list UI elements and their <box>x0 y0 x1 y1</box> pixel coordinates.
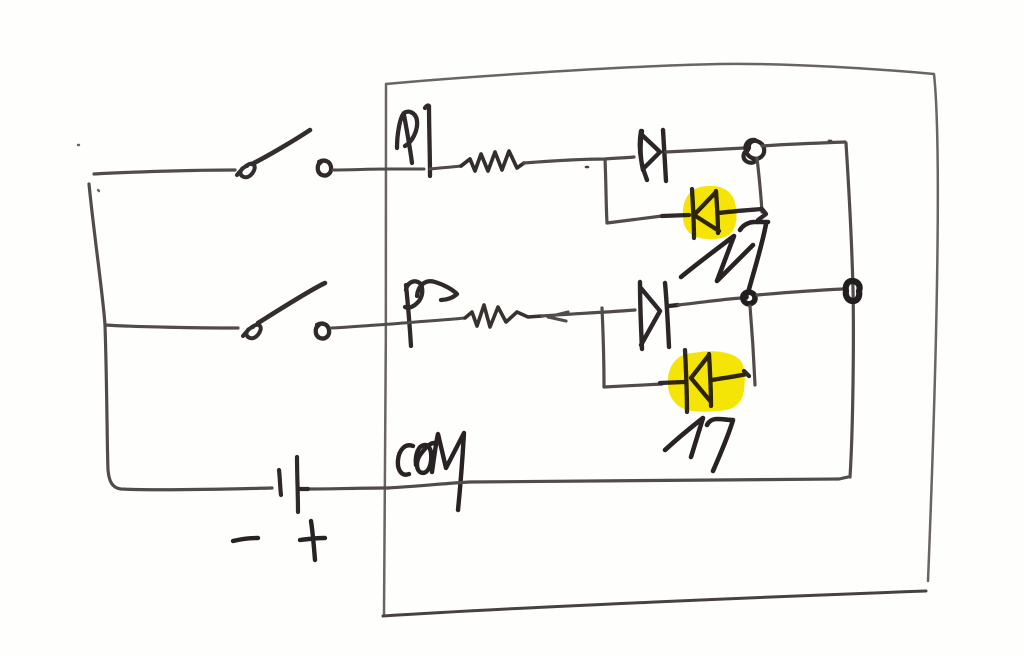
stray ink dot below row1 start <box>98 190 99 191</box>
LED1 highlighter blob <box>683 186 737 239</box>
stray ink dot near wire <box>586 166 588 169</box>
wire: battery plus to COM terminal and COM line to right rail <box>308 477 848 489</box>
wire: left rail to switch S1 <box>94 170 235 174</box>
wire: branch from R2 output down to LED2 anode <box>602 308 662 387</box>
battery BT1 positive plate <box>297 457 308 512</box>
wire: node B down to LED2 cathode side <box>750 306 755 385</box>
wire: P2 terminal to resistor R2 <box>392 318 465 324</box>
wire: D2 cathode to node B <box>678 298 741 305</box>
battery BT1 negative plate <box>279 470 281 495</box>
wire: P1 terminal to resistor R1 <box>430 166 461 169</box>
label P1 <box>397 106 430 176</box>
switch S2 lever <box>258 283 325 323</box>
LED1 emission arrows <box>681 222 768 293</box>
node A (open junction ring) <box>744 140 765 163</box>
node B (junction dot) <box>743 292 755 304</box>
wire: R1 to diode D1 (junction with LED1 branch) <box>524 157 634 163</box>
right rail wire (vertical, to COM) <box>846 143 853 477</box>
LED2 emission arrows <box>665 418 733 471</box>
label COM <box>398 433 464 510</box>
node C (junction dot on right rail) <box>846 281 860 301</box>
switch S1 pivot <box>237 164 255 178</box>
wire: node A to right rail <box>762 142 845 146</box>
label P2 <box>405 281 457 346</box>
battery minus label <box>233 538 258 541</box>
switch S2 contact terminal <box>316 324 329 339</box>
stray ink dot top left <box>78 144 79 146</box>
diode D2 <box>640 282 678 349</box>
wire: S1 contact to P1 terminal <box>333 169 424 170</box>
switch S2 pivot <box>243 325 261 339</box>
wire: node A down to LED1 cathode side <box>757 158 762 212</box>
LED2 symbol <box>660 350 749 412</box>
module box U1 outline <box>384 64 938 615</box>
stray ink dot on node A wire <box>829 140 831 143</box>
battery plus label <box>300 521 325 560</box>
wire: S2 contact to P2 terminal <box>331 324 392 328</box>
wire: node B to node C <box>757 289 843 295</box>
diode D1 <box>640 130 666 181</box>
switch S1 lever <box>252 130 310 164</box>
LED2 highlighter blob <box>668 351 745 411</box>
wire: R2 to diode D2 (with pen hook) <box>542 310 635 321</box>
LED1 symbol <box>662 189 766 238</box>
resistor R2 <box>465 305 542 327</box>
wire: left rail to switch S2 <box>105 325 238 328</box>
switch S1 contact terminal <box>318 161 331 176</box>
left rail wire (switch commons to battery minus) <box>89 184 272 490</box>
resistor R1 <box>461 151 524 171</box>
wire: branch from R1 output down to LED1 anode <box>605 159 662 223</box>
wire: D1 cathode to node A <box>666 148 744 152</box>
